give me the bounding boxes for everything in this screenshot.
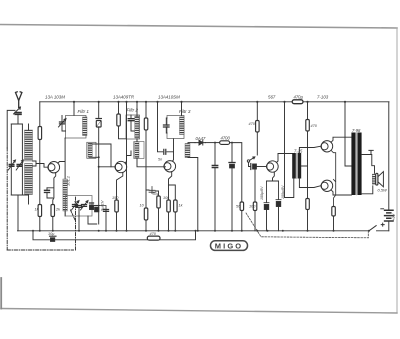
resistor R17 56 [240,202,244,211]
resistor R3 [51,205,55,217]
wire antenna to gang [11,115,22,124]
svg-text:Filtr 1: Filtr 1 [78,109,90,114]
electrolytic C15 [276,181,281,200]
wire antenna return leg [7,110,15,148]
svg-text:100: 100 [249,205,256,209]
capacitor C4 [45,190,50,192]
wire column x345 centre tap [345,102,351,166]
svg-text:13A 103M: 13A 103M [45,95,65,100]
interstage transformer Tr1 primary [292,153,296,179]
wire rail start drop [39,102,41,127]
svg-text:Filtr 3: Filtr 3 [179,109,191,114]
svg-text:470µ: 470µ [294,95,304,100]
wire column x255 [254,167,256,231]
wire trimmer box to rail [79,216,97,231]
resistor R12 [306,120,310,132]
resistor R16 [144,208,148,220]
wire T6 collector to output transformer [331,190,351,195]
svg-text:7-103: 7-103 [317,95,329,100]
variable capacitor C3a [9,165,14,167]
wire C14 to T4 base [257,166,266,168]
svg-text:13A409TR: 13A409TR [113,95,135,100]
speaker LS cone [378,172,383,187]
transistor T1 mixer [48,162,59,173]
wire T3 collector up [173,139,174,162]
svg-text:4700: 4700 [221,136,231,141]
antenna A1 [16,92,22,107]
svg-text:101,1: 101,1 [66,176,71,186]
wire Filtr3 sec wiring [188,143,198,231]
transistor T2 [115,161,126,172]
output transformer Tr2 primary [351,133,355,196]
battery B1 [385,210,393,221]
wire T3 bypass branch [169,185,176,231]
battery plus sign [381,223,384,226]
Filtr 3 coil [180,117,185,135]
wire T2 emitter down [117,172,123,200]
wire bottom ground rail [18,230,389,232]
electrolytic C14 [250,164,252,170]
wire x146 column [145,102,147,118]
Filtr 1 coil [83,117,88,136]
wire x157 AGC column [158,102,174,152]
electrolytic C7 [90,202,94,204]
resistor R15 in AF rail [147,236,160,240]
switch S1 [369,226,376,231]
resistor R14 [332,207,336,217]
resistor R9 470 [256,121,260,133]
dash-dot shield boundary right [75,197,77,251]
wire column x257 top [256,102,258,121]
wire C11 link [146,190,159,196]
node rail x98.7 [98,101,100,103]
Filtr 3 secondary coil [185,144,190,158]
wire secondary top to T2 base [90,144,111,167]
electrolytic C13 [229,162,235,164]
page left edge [0,278,2,309]
wire diode to pot [206,142,220,144]
wire C12 down [214,168,216,231]
wire R3 to rail [52,217,54,231]
node rail x118.5 [117,101,119,103]
wire top supply rail [40,101,389,103]
capacitor C17 10u on AF rail [50,235,57,237]
wire rail to Filtr1 [73,102,75,116]
wire T5 T6 emitters join [331,150,336,206]
IF transformer Filtr 2 box [126,115,140,139]
svg-text:470: 470 [150,232,157,236]
wire C13 down [231,168,233,231]
speaker output terminal [369,150,373,154]
wire T4 emitter down [267,172,279,181]
svg-text:7-25: 7-25 [294,149,303,154]
wire Filtr2 sec to T3 base [137,139,166,167]
electrolytic C20 [264,181,269,203]
interstage transformer Tr1 secondary [298,153,302,179]
ferrite rod antenna coil L1 upper [25,130,33,161]
wire Filtr2 top [136,102,138,116]
capacitor C19 [164,149,166,154]
resistor R4 [115,200,119,212]
svg-text:150: 150 [112,196,119,200]
resistor R2 [38,205,42,217]
capacitor C9 [94,205,99,207]
IF transformer Filtr 3 box [167,116,184,139]
svg-text:MIGO: MIGO [215,242,243,251]
svg-text:567: 567 [268,95,276,100]
oscillator coil L2 [63,179,68,211]
wire gang left leg [10,124,12,195]
variable capacitor C3b [17,165,22,167]
Filtr 2 coil [135,116,139,138]
Filtr 1 secondary coil [88,143,92,157]
speaker LS magnet [376,173,378,185]
output transformer Tr2 secondary [357,133,361,196]
wire L2 top [64,211,66,216]
dash-dot shield boundary bottom [7,249,73,251]
page right edge [396,28,398,313]
pot wiper arrow [247,160,249,162]
wire branch x232 [231,143,233,162]
wire T4 collector to transformer [277,154,293,163]
ferrite rod antenna coil L1 lower [25,164,33,195]
svg-text:5n: 5n [158,158,162,162]
Filtr 1 secondary coil box [87,142,96,158]
wire right supply drop to battery [388,102,390,231]
wire coil tap to mixer base [36,164,48,168]
svg-text:470: 470 [249,122,256,126]
wire pot right [230,143,242,231]
MIGO badge [211,241,248,251]
speaker LS voice coil [372,174,375,184]
dash-dot shield boundary left [6,148,8,250]
trimmer capacitor C5 [73,205,78,207]
transistor T5 [321,141,332,152]
oscillator trimmer box [66,196,93,217]
capacitor C12 [212,166,217,168]
capacitor C10 [104,210,109,212]
wire coil L1 taps [29,124,37,204]
capacitor C2 [15,113,21,115]
wire T3 emitter down [169,172,172,200]
wire Tr1 sec bottom to T6 base [299,179,320,188]
wire wiper to base cap [249,162,251,166]
resistor R18 [174,200,178,212]
svg-text:5n: 5n [74,201,78,205]
node rail x74 [73,101,75,103]
Filtr 3 capacitor [164,125,170,127]
transistor T4 driver [267,161,278,172]
wire AF secondary rail [33,231,196,240]
wire R5 to Filtr2 ground column [119,126,127,139]
transistor T6 [321,180,332,191]
resistor R5 [118,102,120,114]
svg-text:470: 470 [311,124,318,128]
svg-text:100µ/6V: 100µ/6V [260,186,264,200]
svg-text:0,5W: 0,5W [378,188,389,193]
wire T5 collector to output transformer [331,137,351,142]
wire C8 down [98,127,100,224]
svg-text:0A47: 0A47 [196,136,206,141]
diode D1 OA47 [195,140,206,145]
capacitor C18 [77,206,82,208]
wire pot left leg down [214,143,216,165]
svg-text:10µ: 10µ [48,232,55,236]
wire R8 to rail [168,212,170,231]
IF transformer Filtr 1 box [66,116,87,139]
resistor R7 [157,196,161,208]
Filtr 2 capacitor [128,119,134,121]
wire column x307.5 [307,102,309,120]
svg-text:+9V: +9V [391,213,396,221]
Filtr 1 trimmer capacitor [60,122,65,124]
svg-text:Filtr 2: Filtr 2 [127,108,139,113]
wire Filtr2 ground column [126,102,128,231]
trimmer capacitor C6 [82,205,87,207]
electrolytic C8 [96,118,101,120]
wire R6 down [145,130,147,231]
resistor R13 [307,166,309,199]
svg-text:13A410SM: 13A410SM [158,95,180,100]
wire R14 to rail [333,216,335,231]
svg-text:50µ: 50µ [153,192,160,196]
page top edge [0,25,397,29]
dashed link volume switch [246,213,368,238]
resistor R8 [167,200,171,212]
wire R2 to rail [39,217,41,231]
transistor T3 [164,161,175,172]
wire Filtr3 top [181,102,183,116]
wire gang to ground rail [17,195,19,231]
wire R7 to rail [158,208,160,231]
dash-dot gang coupling diagonal [71,210,76,221]
page bottom edge [1,309,397,314]
fuse F1 on rail [292,100,303,104]
trimmer capacitor C1 arrow [14,107,21,114]
wire x104 column [105,209,107,231]
wire Tr2 sec bottom to speaker [362,186,373,194]
resistor R10 [253,202,256,211]
wire x98.7 down [98,102,100,118]
potentiometer P1 4700 body [220,141,230,145]
Filtr 2 secondary coil [135,142,139,158]
wire T2 collector up [125,151,131,163]
resistor R1 [38,127,42,140]
svg-text:9µ/1V: 9µ/1V [100,200,105,211]
wire T1 emitter down [47,173,56,205]
battery minus sign [381,208,384,210]
node dots bottom rail [32,230,335,232]
capacitor C11 [149,187,155,194]
Tr2 core [356,133,358,196]
wire x284.5 drop to Tr1 [285,102,294,198]
wire Filtr1 out [64,137,66,140]
wire R9 down [256,132,258,155]
wire secondary to T2 base [90,157,116,167]
svg-text:7-98: 7-98 [352,128,361,133]
Tr1 core [295,153,297,179]
wire T1 collector up [58,139,65,179]
wire R12 down [307,131,309,160]
wire R4 to rail [116,212,118,231]
svg-text:100µ/6V: 100µ/6V [281,185,285,199]
wire Tr1 sec centre tap [301,160,307,166]
wire Tr2 sec top to speaker [362,155,375,174]
wire Tr1 sec top to T5 base [299,146,320,153]
wire gang right leg [11,124,28,195]
wire R13 to rail [307,210,309,231]
resistor R6 [144,118,148,130]
wire R1 down [39,140,41,205]
